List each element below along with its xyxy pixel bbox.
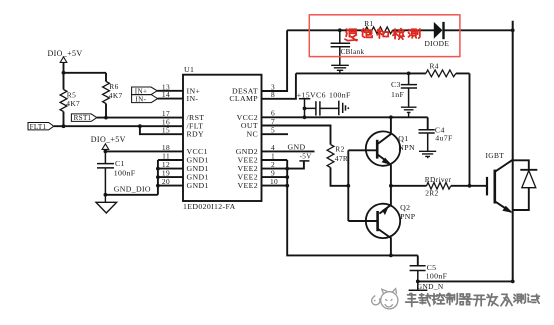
svg-text:RST1: RST1 xyxy=(74,114,92,122)
node Q1 collector on VCC2 wire xyxy=(389,115,393,119)
power -5V bar xyxy=(299,153,312,161)
svg-text:Q1: Q1 xyxy=(398,134,408,143)
svg-text:4K7: 4K7 xyxy=(109,91,123,100)
svg-text:1ED020I12-FA: 1ED020I12-FA xyxy=(183,202,236,211)
node GND1 joins xyxy=(156,167,160,171)
node C5/GND_N xyxy=(416,280,420,284)
wire pin3 DESAT up to top rail xyxy=(262,30,288,91)
svg-text:4K7: 4K7 xyxy=(66,99,80,108)
wire base bus Q1-Q2 xyxy=(347,150,349,221)
svg-text:DIODE: DIODE xyxy=(425,39,450,48)
node VCC1/C1 xyxy=(104,150,108,154)
resistor R1 xyxy=(364,19,392,34)
svg-text:100nF: 100nF xyxy=(329,91,351,100)
power DIO_+5V (second) xyxy=(91,135,126,151)
svg-text:R2: R2 xyxy=(335,145,344,154)
svg-text:-5V: -5V xyxy=(300,153,313,161)
svg-text:GND1: GND1 xyxy=(187,181,209,190)
svg-text:DIO_+5V: DIO_+5V xyxy=(91,135,126,144)
svg-text:CBlank: CBlank xyxy=(341,48,365,56)
node CBlank tap xyxy=(338,28,342,32)
resistor RDriver xyxy=(425,175,452,198)
wire IN+ to pin13 xyxy=(157,90,183,92)
wire collector rail xyxy=(512,21,514,282)
wire VCC1 pin18 xyxy=(105,150,183,152)
svg-text:1nF: 1nF xyxy=(391,90,404,99)
node C1 bottom xyxy=(104,193,108,197)
svg-text:14: 14 xyxy=(162,90,170,99)
svg-text:IN-: IN- xyxy=(187,94,199,103)
wire xyxy=(64,72,107,74)
node R5 bottom xyxy=(62,124,66,128)
capacitor C5 xyxy=(410,263,448,282)
capacitor CBlank xyxy=(331,30,365,65)
node FLT/RDY branch xyxy=(138,124,142,128)
pin numbers left xyxy=(162,82,170,186)
power DIO_+5V top-left xyxy=(48,49,83,73)
svg-text:GND: GND xyxy=(288,142,306,151)
svg-text:GND_DIO: GND_DIO xyxy=(114,185,151,194)
node C3 tap xyxy=(407,72,411,76)
svg-text:C5: C5 xyxy=(427,263,437,272)
net label RST1 xyxy=(71,114,96,122)
ground (triangle) xyxy=(96,195,117,213)
wire R4 down to gate node xyxy=(469,73,471,185)
wire GND1 bus xyxy=(158,160,183,195)
node R4 branch on gate line xyxy=(468,184,472,188)
wire VEE2 bus down and right xyxy=(287,160,418,255)
pin names inside U1 xyxy=(187,86,259,190)
power GND_N bar xyxy=(409,281,444,291)
svg-text:4u7F: 4u7F xyxy=(435,134,453,143)
wire pin4 GND2 stub xyxy=(262,150,315,152)
resistor R4 xyxy=(426,61,456,77)
capacitor 100nF (polarized) xyxy=(339,101,349,116)
svg-text:2R2: 2R2 xyxy=(425,189,438,198)
node Q2 collector xyxy=(389,254,393,258)
svg-text:RDriver: RDriver xyxy=(425,175,452,184)
ground under CBlank xyxy=(331,65,349,73)
ground under C4 xyxy=(419,151,436,158)
net label IN- xyxy=(132,95,158,104)
capacitor C3 xyxy=(391,73,417,107)
svg-text:/RST: /RST xyxy=(187,113,205,122)
node top rail junction xyxy=(511,28,515,32)
resistor R2 xyxy=(327,145,348,168)
watermark logo xyxy=(372,289,398,309)
wire pin5 NC stub xyxy=(262,133,289,135)
svg-text:DIO_+5V: DIO_+5V xyxy=(48,49,83,58)
wire C4 drop xyxy=(427,117,429,129)
svg-text:C3: C3 xyxy=(391,80,401,89)
watermark text 车载控制器开发及测试 xyxy=(406,293,540,306)
wire GND_N to rail xyxy=(418,280,513,282)
svg-text:FLT1: FLT1 xyxy=(30,123,47,131)
wire pin7 OUT down through R2 xyxy=(262,126,349,186)
wire gate line xyxy=(391,185,487,187)
svg-text:IGBT: IGBT xyxy=(486,151,505,160)
transistor IGBT xyxy=(486,151,513,213)
node R6 bottom xyxy=(104,116,108,120)
wire pin8 CLAMP to y73.4 run xyxy=(262,73,296,98)
transistor Q2 xyxy=(348,186,415,256)
svg-text:100nF: 100nF xyxy=(426,272,448,281)
capacitor C4 xyxy=(419,126,454,152)
transistor Q1 xyxy=(348,117,415,186)
svg-text:C1: C1 xyxy=(115,159,125,168)
svg-text:OUT: OUT xyxy=(241,121,258,130)
net label FLT1 xyxy=(28,123,54,131)
resistor R5 xyxy=(60,73,80,126)
node emitter/gate xyxy=(389,184,393,188)
capacitor C6 100nF xyxy=(305,101,339,115)
node rail bottom xyxy=(511,280,515,284)
pin numbers right xyxy=(270,82,278,186)
wire pin2 VEE2 with -5V tap xyxy=(262,161,304,169)
svg-text:NPN: NPN xyxy=(398,143,415,152)
wire pin10 VEE2 xyxy=(262,185,288,187)
wire pin9 VEE2 xyxy=(262,176,288,178)
diode DIODE xyxy=(425,22,450,48)
wire GND_DIO xyxy=(105,194,157,196)
wire IN- to pin14 xyxy=(158,98,183,100)
node +15V on VCC2 wire xyxy=(303,115,307,119)
net label IN+ xyxy=(132,87,158,95)
svg-text:PNP: PNP xyxy=(400,212,416,221)
wire down to C5 xyxy=(417,255,419,265)
wire top desat run xyxy=(287,29,513,31)
svg-text:15: 15 xyxy=(162,126,170,135)
svg-text:Q2: Q2 xyxy=(400,203,410,212)
svg-text:R4: R4 xyxy=(430,61,439,70)
svg-text:VEE2: VEE2 xyxy=(238,181,258,190)
svg-text:20: 20 xyxy=(162,177,170,186)
red annotation box 退饱和检测 xyxy=(309,15,460,57)
op-amp / gate driver IC U1 xyxy=(183,65,262,211)
svg-text:R1: R1 xyxy=(364,19,373,28)
svg-text:100nF: 100nF xyxy=(114,168,136,177)
wire RST1 to pin17 xyxy=(97,117,183,119)
diode antiparallel with IGBT xyxy=(513,160,538,210)
pin underline strokes left of numbers are the wires themselves xyxy=(262,30,470,187)
wire clamp horizontal run xyxy=(296,72,470,74)
ground under C3 xyxy=(401,107,417,117)
resistor R6 xyxy=(103,73,123,118)
svg-text:CLAMP: CLAMP xyxy=(229,94,258,103)
wire FLT1 to pin16 xyxy=(54,125,183,127)
node top of R5/R6 xyxy=(62,71,66,75)
svg-text:RDY: RDY xyxy=(187,130,205,139)
svg-text:GND_N: GND_N xyxy=(417,282,444,291)
svg-text:47R: 47R xyxy=(335,154,348,163)
svg-text:U1: U1 xyxy=(184,65,194,74)
svg-text:IN-: IN- xyxy=(135,95,146,103)
svg-text:NC: NC xyxy=(246,130,258,139)
node R2 to base bus xyxy=(346,184,350,188)
svg-text:1: 1 xyxy=(271,151,275,160)
node bus joins xyxy=(285,167,289,171)
node cap row tap xyxy=(303,107,307,111)
wire branch to pin15 RDY xyxy=(140,126,183,134)
wire pin1 VEE2 xyxy=(262,159,288,161)
wire pin6 VCC2 xyxy=(262,116,428,118)
power +15V tap xyxy=(297,91,351,118)
capacitor C1 xyxy=(97,151,136,194)
